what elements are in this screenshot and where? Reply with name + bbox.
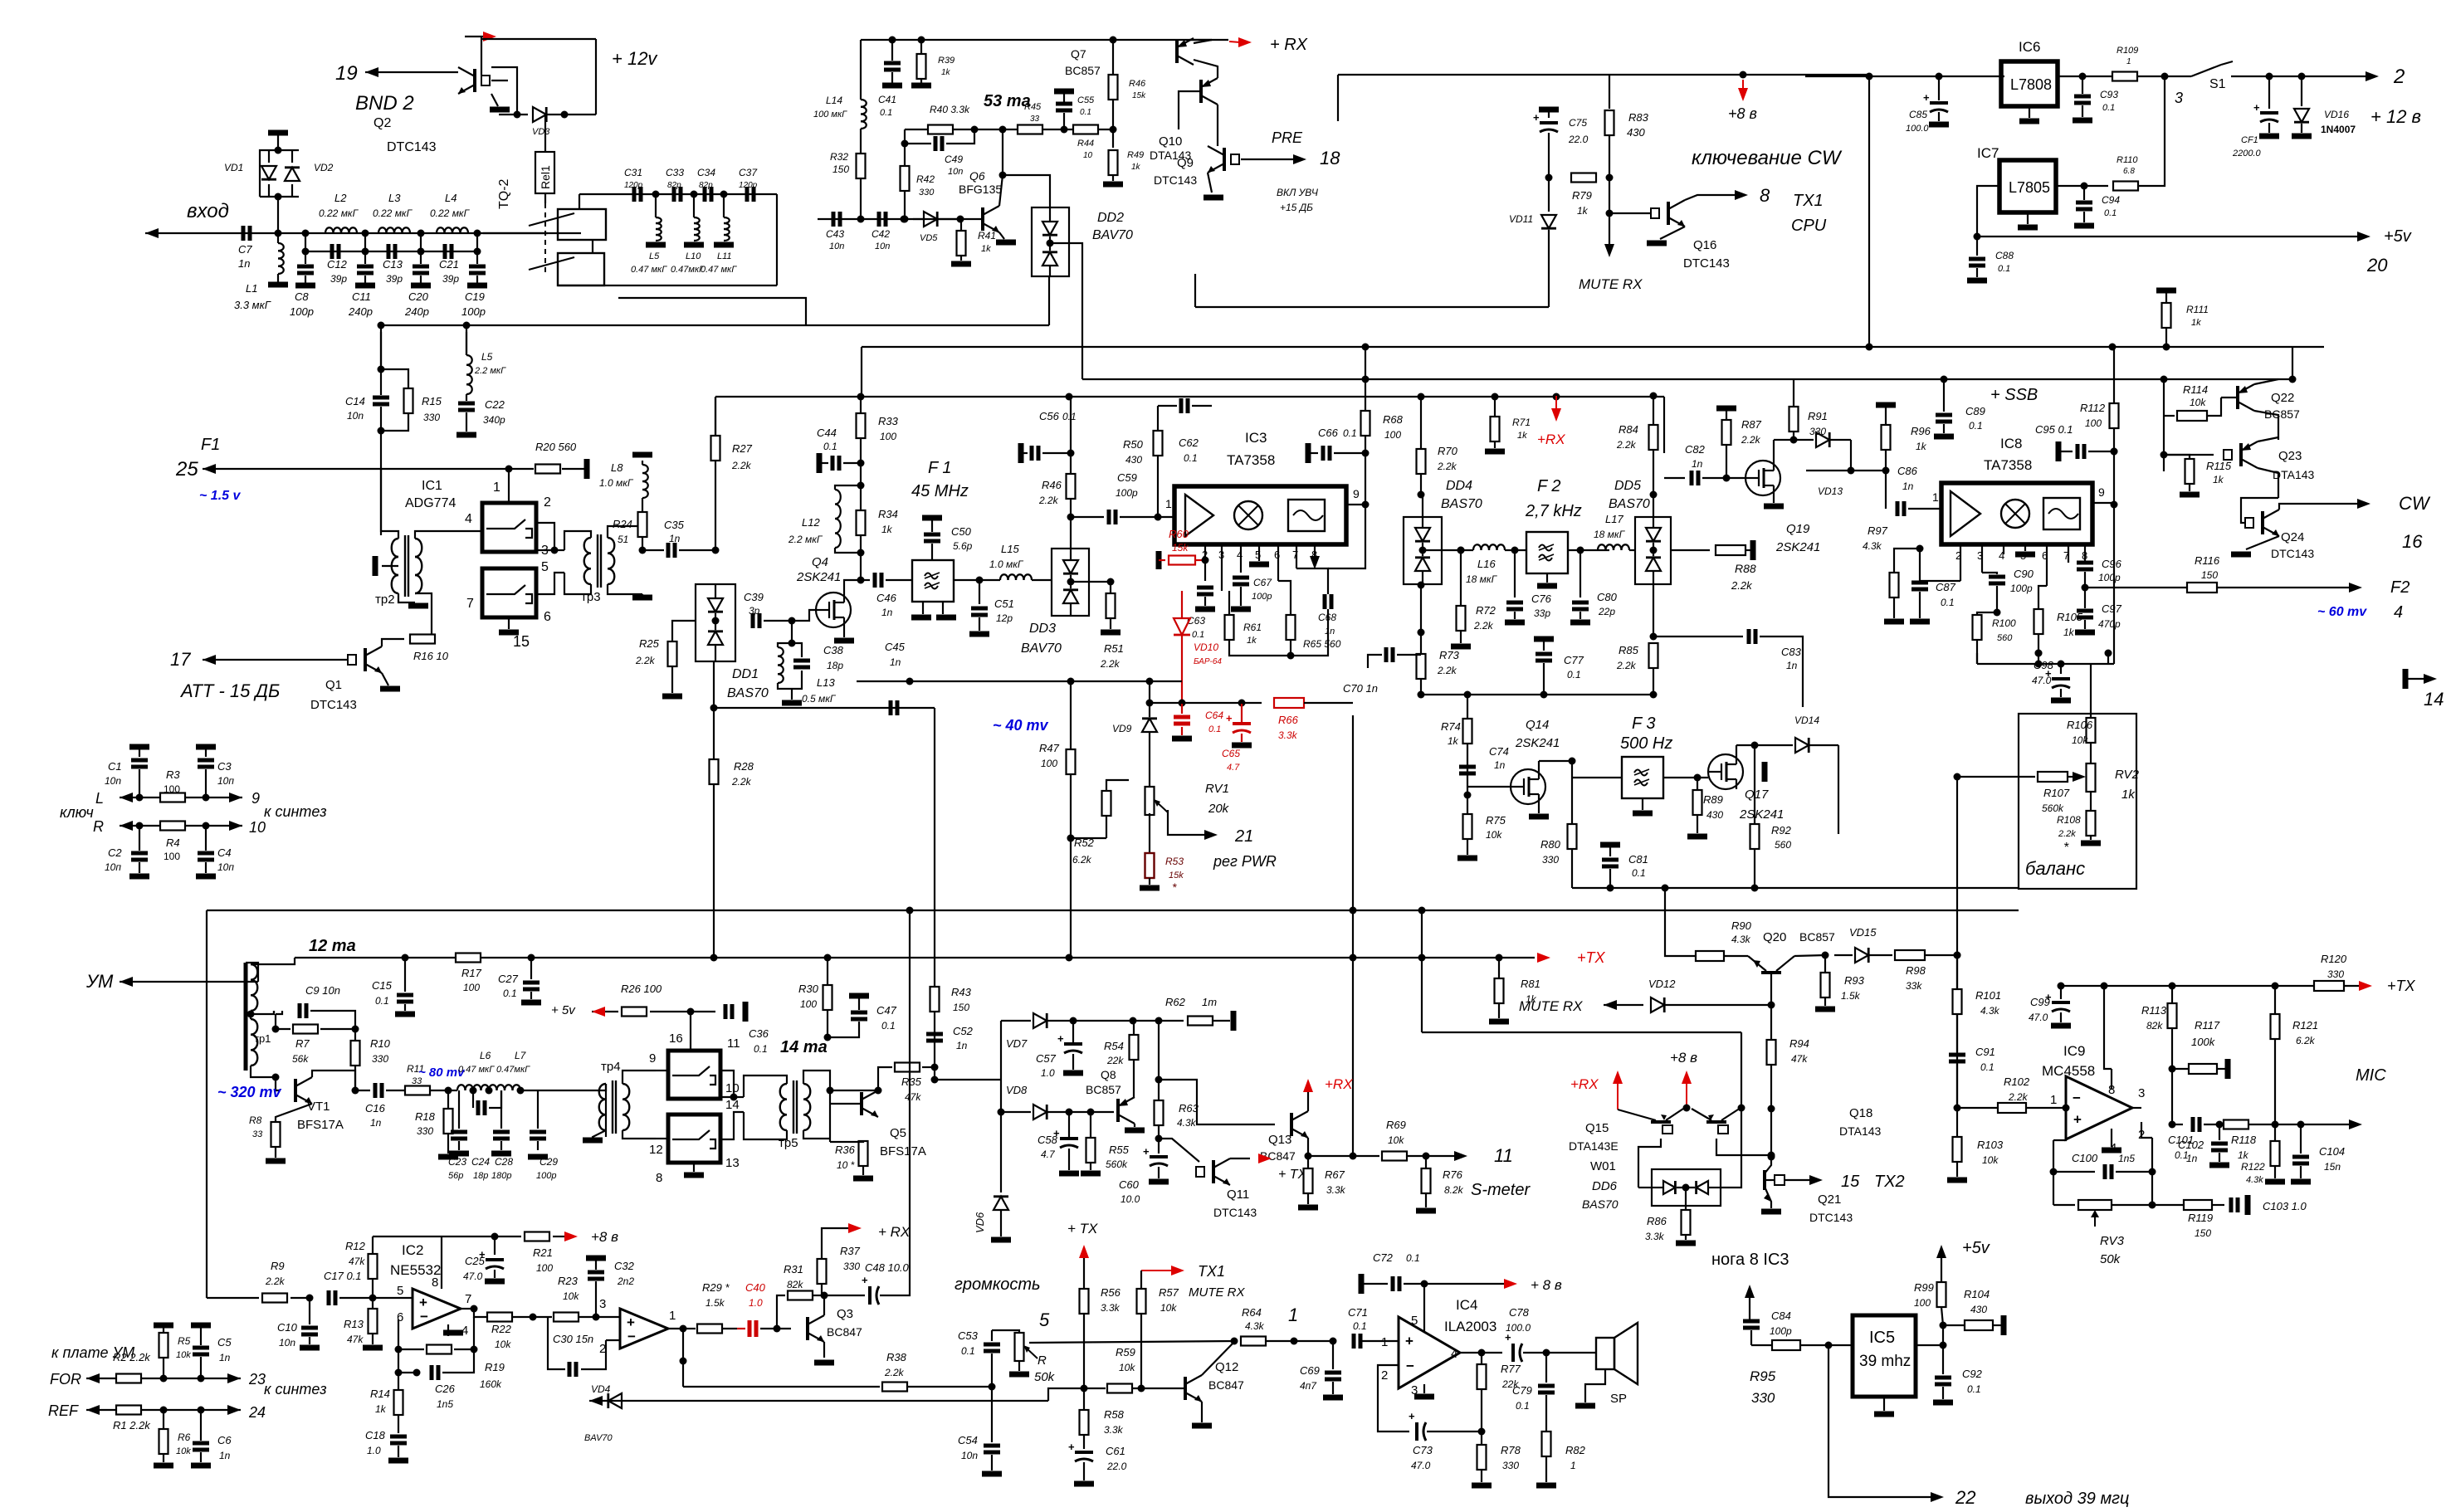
wire box filter band [776, 194, 778, 285]
svg-text:C33: C33 [666, 167, 684, 178]
svg-text:CW: CW [2399, 493, 2431, 514]
svg-text:VD7: VD7 [1006, 1037, 1028, 1050]
svg-text:10k: 10k [176, 1446, 191, 1456]
svg-text:R83: R83 [1628, 111, 1649, 124]
node +8 в [1738, 88, 1748, 101]
svg-text:+RX: +RX [1325, 1076, 1353, 1092]
svg-text:24: 24 [248, 1404, 266, 1421]
svg-text:10k: 10k [1982, 1154, 1999, 1166]
svg-text:R95: R95 [1750, 1368, 1776, 1384]
resistor R63 [1158, 1021, 1160, 1100]
svg-text:100: 100 [1384, 429, 1401, 441]
transformer тр5 [780, 1084, 787, 1100]
resistor R4 [160, 822, 185, 831]
svg-text:4.3k: 4.3k [1980, 1005, 2000, 1017]
wire MUTE collector line [1713, 1032, 1741, 1033]
capacitor C38 [793, 659, 810, 663]
svg-text:C72: C72 [1373, 1251, 1394, 1264]
svg-text:13: 13 [725, 1156, 740, 1170]
svg-text:R41: R41 [978, 230, 996, 241]
wire vert from C14 up [380, 332, 382, 369]
svg-text:Q2: Q2 [374, 116, 391, 130]
capacitor C28 [500, 1090, 502, 1129]
svg-text:5: 5 [1255, 549, 1261, 561]
wire DD6 leads [1638, 1187, 1652, 1188]
svg-text:R5: R5 [178, 1335, 191, 1347]
svg-text:+5v: +5v [2384, 227, 2412, 246]
svg-text:C21: C21 [439, 258, 459, 271]
resistor R6 [163, 1410, 164, 1429]
node +RX red H [1555, 396, 1557, 408]
svg-text:DD1: DD1 [732, 667, 759, 681]
svg-text:2: 2 [1381, 1368, 1388, 1383]
svg-text:10п: 10п [217, 861, 234, 873]
svg-text:10n: 10n [829, 241, 844, 251]
ground тр3 R24 [642, 550, 643, 581]
speaker SP [1546, 1352, 1596, 1353]
wire DD3 node [1071, 581, 1111, 583]
svg-text:10: 10 [249, 819, 266, 836]
svg-text:R57: R57 [1159, 1286, 1179, 1299]
resistor R41 [960, 219, 962, 231]
svg-text:+ RX: + RX [878, 1224, 911, 1240]
svg-text:R44: R44 [1077, 139, 1094, 149]
svg-text:IC4: IC4 [1456, 1297, 1477, 1313]
svg-text:BAS70: BAS70 [1582, 1197, 1619, 1211]
svg-text:L14: L14 [826, 95, 842, 106]
capacitor C79 [1545, 1353, 1547, 1383]
svg-text:50k: 50k [2100, 1252, 2121, 1266]
svg-text:C28: C28 [495, 1156, 513, 1168]
svg-text:2.2k: 2.2k [884, 1367, 905, 1378]
svg-text:R90: R90 [1731, 919, 1752, 932]
wire R98 junction down [1954, 952, 1961, 959]
inductor L3 [378, 227, 387, 233]
svg-text:Q19: Q19 [1786, 522, 1810, 536]
node TX1 MUTE RX right [1141, 1270, 1171, 1271]
svg-text:8: 8 [432, 1275, 438, 1290]
wire F1 line 25 [203, 468, 509, 470]
resistor R87 [1716, 406, 1736, 412]
capacitor C60 [1150, 1155, 1168, 1158]
svg-text:1.0 мкГ: 1.0 мкГ [599, 477, 634, 489]
svg-text:DTC143: DTC143 [1154, 173, 1197, 187]
resistor R2 [116, 1374, 141, 1383]
inductor L8 [642, 463, 643, 471]
resistor R43 [934, 708, 935, 987]
svg-text:0.1: 0.1 [1343, 427, 1357, 439]
svg-text:430: 430 [1125, 454, 1142, 466]
capacitor C62 [1158, 405, 1172, 407]
svg-text:39 mhz: 39 mhz [1859, 1353, 1911, 1370]
capacitor C89 [1943, 379, 1945, 412]
wire rail +8 [442, 1236, 495, 1237]
capacitor C41 [884, 61, 901, 66]
svg-text:BND 2: BND 2 [355, 92, 414, 115]
svg-text:51: 51 [618, 534, 628, 545]
wire Q13 base from R63 [1159, 1080, 1275, 1124]
capacitor C91 [1949, 1053, 1965, 1057]
svg-text:330: 330 [2327, 968, 2344, 980]
transistor Q21 DTC143 [1763, 1170, 1766, 1190]
svg-text:TA7358: TA7358 [1984, 457, 2032, 473]
svg-text:2SK241: 2SK241 [796, 570, 841, 584]
svg-text:R45: R45 [1024, 102, 1042, 112]
svg-text:S-meter: S-meter [1471, 1181, 1531, 1199]
svg-text:R: R [1038, 1353, 1047, 1368]
resistor R58 [1080, 1410, 1089, 1435]
svg-text:1: 1 [1932, 490, 1939, 504]
svg-text:9: 9 [251, 790, 260, 807]
wire top rail G [862, 346, 1869, 348]
wire Q11 base from R63 [1159, 1139, 1199, 1162]
capacitor C68 [1323, 594, 1327, 609]
node MUTE RX arrow [1609, 178, 1610, 245]
svg-text:C12: C12 [327, 258, 348, 271]
svg-text:100: 100 [463, 982, 480, 993]
svg-text:R46: R46 [1129, 79, 1146, 89]
capacitor C83 [1653, 636, 1743, 637]
wire vertical 2358 [1956, 777, 1958, 1108]
svg-text:VD16: VD16 [2324, 109, 2349, 120]
svg-text:IC1: IC1 [422, 479, 442, 493]
svg-text:Q15: Q15 [1585, 1121, 1609, 1135]
transistor Q7 BC857 [1175, 40, 1179, 63]
svg-text:150: 150 [832, 163, 849, 175]
svg-text:R108: R108 [2057, 814, 2081, 826]
svg-text:R56: R56 [1101, 1286, 1121, 1299]
svg-text:330: 330 [1542, 854, 1559, 866]
svg-text:+: + [1143, 1145, 1150, 1158]
svg-text:10n: 10n [961, 1450, 978, 1461]
svg-text:3.3k: 3.3k [1278, 729, 1298, 741]
svg-text:R36: R36 [835, 1144, 856, 1156]
svg-text:6.8: 6.8 [2123, 167, 2135, 176]
svg-text:100p: 100p [290, 305, 314, 318]
svg-text:0.1: 0.1 [375, 995, 389, 1007]
svg-text:470p: 470p [2098, 618, 2121, 630]
transistor Q9 DTC143 [1223, 148, 1226, 171]
svg-text:4.3k: 4.3k [1177, 1117, 1197, 1129]
node 11 S-meter [1426, 1155, 1454, 1157]
filter F2 [1526, 532, 1568, 573]
capacitor C59 [1071, 516, 1104, 518]
svg-text:R24: R24 [613, 518, 632, 530]
capacitor C61 [1075, 1451, 1093, 1454]
svg-text:39p: 39p [330, 273, 347, 285]
capacitor C81 [1600, 842, 1620, 848]
svg-text:L: L [95, 790, 104, 807]
capacitor C96 [2084, 554, 2086, 561]
capacitor C39 [722, 620, 747, 622]
svg-text:0.47 мкГ: 0.47 мкГ [631, 265, 667, 275]
svg-text:R34: R34 [878, 508, 898, 520]
resistor R3 [160, 793, 185, 802]
svg-text:C26: C26 [435, 1383, 456, 1395]
svg-text:C31: C31 [624, 167, 642, 178]
inductor L5a [466, 355, 472, 365]
resistor R104 [1943, 1324, 1964, 1326]
svg-text:VD12: VD12 [1648, 978, 1676, 990]
regulator IC7 L7805 [1999, 160, 2056, 212]
capacitor C97 [2077, 609, 2093, 613]
svg-text:C9 10n: C9 10n [305, 984, 340, 997]
potentiometer R 50k громкость [992, 1330, 1019, 1333]
svg-text:L8: L8 [611, 461, 623, 474]
switch box M lower [668, 1114, 720, 1163]
capacitor C90 [1982, 572, 1997, 573]
transistor Q24 DTC143 [2261, 511, 2264, 534]
svg-text:R84: R84 [1619, 423, 1638, 436]
ground IC5 [1883, 1397, 1885, 1411]
svg-text:R100: R100 [1992, 617, 2016, 629]
resistor R13 [372, 1298, 374, 1309]
svg-text:C93: C93 [2100, 89, 2118, 100]
capacitor C67 [1233, 576, 1249, 580]
svg-text:4.3k: 4.3k [1863, 540, 1882, 552]
svg-text:0.22 мкГ: 0.22 мкГ [319, 207, 359, 219]
resistor R50 [1154, 431, 1163, 456]
svg-text:R53: R53 [1165, 856, 1184, 867]
svg-text:R33: R33 [878, 415, 899, 427]
wire rail J2 [1082, 378, 2292, 380]
svg-text:C2: C2 [108, 846, 122, 859]
resistor R88 [1671, 549, 1710, 551]
wire rail y394 [380, 325, 382, 369]
capacitor C66 [1306, 443, 1311, 463]
wire IC1 pin1 [508, 469, 510, 503]
svg-text:100: 100 [880, 431, 896, 442]
inductor L11 filter [723, 194, 725, 217]
svg-text:2SK241: 2SK241 [1775, 540, 1820, 554]
capacitor C82 [1664, 477, 1685, 479]
svg-text:R14: R14 [370, 1388, 390, 1400]
svg-text:RV2: RV2 [2115, 768, 2140, 782]
wire R43 junction [934, 999, 935, 1067]
svg-text:C92: C92 [1962, 1368, 1983, 1380]
op-amp IC2 NE5532 A [413, 1289, 461, 1329]
switch box IC1 lower [482, 568, 536, 617]
op-amp IC3 TA7358 [1174, 486, 1346, 544]
svg-text:R98: R98 [1906, 964, 1926, 977]
svg-text:BAS70: BAS70 [1609, 497, 1650, 511]
transistor Q10 DTA143 [1199, 80, 1203, 103]
svg-text:MUTE RX: MUTE RX [1189, 1285, 1245, 1300]
svg-text:L12: L12 [802, 516, 820, 529]
svg-text:R115: R115 [2206, 460, 2232, 472]
diode VD14 [1755, 744, 1793, 746]
svg-text:R106: R106 [2067, 719, 2093, 731]
svg-text:Q11: Q11 [1227, 1188, 1249, 1202]
svg-text:0.1: 0.1 [1969, 420, 1983, 432]
svg-text:0.1: 0.1 [1941, 597, 1955, 608]
svg-text:56k: 56k [292, 1053, 309, 1065]
svg-text:C5: C5 [217, 1336, 232, 1349]
svg-text:2SK241: 2SK241 [1515, 736, 1560, 750]
svg-text:DD4: DD4 [1446, 479, 1472, 493]
capacitor C53 [991, 1330, 993, 1341]
svg-text:C70 1n: C70 1n [1343, 682, 1378, 695]
op-amp IC4 ILA2003 [1399, 1317, 1460, 1388]
inductor L10 filter [693, 194, 695, 217]
wire relay to lineP [618, 298, 806, 325]
svg-text:C61: C61 [1106, 1445, 1125, 1457]
capacitor CF1 [2266, 73, 2273, 80]
resistor R74 [1467, 695, 1468, 719]
svg-text:2.2k: 2.2k [1616, 660, 1637, 671]
svg-text:2: 2 [2393, 66, 2405, 88]
svg-text:0.1: 0.1 [823, 441, 837, 452]
wire F2 out line [2085, 587, 2202, 588]
svg-text:DTA143: DTA143 [1839, 1124, 1882, 1138]
svg-text:C81: C81 [1628, 853, 1648, 866]
svg-text:0.1: 0.1 [881, 1020, 896, 1032]
wire rail H2 [1418, 393, 1425, 401]
capacitor C78 [1482, 1352, 1502, 1353]
svg-text:C86: C86 [1897, 465, 1918, 477]
svg-text:R47: R47 [1039, 742, 1060, 754]
resistor R89 [1697, 778, 1698, 790]
svg-text:C13: C13 [383, 258, 403, 271]
diode VD15 [1834, 954, 1853, 956]
capacitor C76 [1514, 550, 1516, 597]
svg-text:240p: 240p [404, 305, 429, 318]
svg-text:4: 4 [2394, 603, 2403, 622]
capacitor C100 [2053, 1171, 2095, 1173]
svg-text:C65: C65 [1222, 748, 1240, 759]
svg-text:0.47мкГ: 0.47мкГ [671, 265, 705, 275]
svg-text:33p: 33p [1534, 607, 1550, 619]
resistor R16 [410, 635, 435, 644]
ground IC1 [508, 617, 510, 629]
svg-text:АТТ - 15 ДБ: АТТ - 15 ДБ [179, 680, 280, 701]
svg-text:15k: 15k [1132, 91, 1146, 100]
resistor R25 [668, 641, 677, 666]
svg-text:BC857: BC857 [1086, 1083, 1121, 1096]
resistor R46 [1112, 40, 1114, 75]
svg-text:330: 330 [372, 1053, 388, 1065]
resistor R70 [1420, 396, 1422, 448]
svg-text:Q7: Q7 [1071, 47, 1086, 61]
svg-text:R35: R35 [901, 1075, 922, 1088]
svg-text:9: 9 [649, 1051, 656, 1066]
resistor R106b [2107, 664, 2109, 714]
svg-text:100p: 100p [2010, 583, 2033, 594]
resistor R102 [1954, 1105, 1961, 1112]
svg-text:R86: R86 [1647, 1215, 1667, 1227]
svg-text:Q9: Q9 [1177, 156, 1194, 170]
svg-text:R38: R38 [886, 1351, 907, 1363]
relay Rel1 [535, 152, 554, 193]
svg-text:L1: L1 [246, 282, 257, 295]
svg-text:100p: 100p [461, 305, 486, 318]
svg-text:1: 1 [1165, 497, 1172, 510]
capacitor C7 [242, 226, 246, 241]
svg-text:+: + [2073, 1112, 2082, 1128]
capacitor C63 [1197, 586, 1213, 590]
svg-text:R114: R114 [2183, 383, 2208, 396]
wire Q5 base R35 loop [830, 1090, 878, 1091]
red resistor R66 [1150, 702, 1262, 704]
svg-text:1: 1 [2126, 57, 2131, 66]
svg-text:12p: 12p [996, 612, 1013, 624]
resistor R96 [1876, 402, 1896, 408]
wire L13 tank [791, 621, 793, 643]
transistor Q19 2SK241 [1745, 461, 1780, 495]
capacitor C30 [581, 1368, 596, 1370]
svg-text:R81: R81 [1521, 978, 1540, 990]
resistor R30 [827, 958, 828, 985]
svg-text:3.3k: 3.3k [1101, 1302, 1121, 1314]
resistor R7 [276, 1028, 291, 1030]
wire top rail B [861, 39, 1212, 41]
svg-text:0.1: 0.1 [1980, 1061, 1994, 1073]
svg-text:5: 5 [1039, 1310, 1050, 1330]
svg-text:R69: R69 [1386, 1119, 1406, 1131]
resistor R94 [1770, 1005, 1772, 1040]
svg-text:+: + [1068, 1441, 1075, 1453]
svg-text:10k: 10k [1388, 1134, 1404, 1146]
capacitor C52 [934, 1032, 935, 1067]
svg-text:~ 60 mv: ~ 60 mv [2317, 605, 2367, 619]
svg-text:+15 ДБ: +15 ДБ [1280, 202, 1313, 213]
resistor R27 [711, 436, 720, 461]
wire Q21 junction [1770, 1109, 1772, 1157]
svg-text:R52: R52 [1074, 836, 1095, 849]
wire 12v rail top [1805, 76, 2004, 77]
transistor Q15 dual B [1706, 1120, 1726, 1124]
svg-text:R102: R102 [2004, 1075, 2030, 1088]
svg-text:C99: C99 [2030, 996, 2050, 1008]
resistor R26 [592, 1011, 618, 1012]
svg-text:430: 430 [1970, 1304, 1987, 1315]
svg-text:DD3: DD3 [1029, 622, 1056, 636]
transistor Q1 DTC143 [364, 648, 367, 671]
svg-text:+ 12 в: + 12 в [2370, 106, 2421, 127]
wire R19 loop [398, 1319, 424, 1349]
svg-text:MIC: MIC [2356, 1066, 2386, 1085]
capacitor C69 [1332, 1341, 1334, 1369]
transistor Q23 DTA143 [2239, 443, 2243, 466]
wire vertical 1713 [1421, 910, 1423, 1032]
svg-text:R15: R15 [422, 395, 442, 407]
svg-text:1n5: 1n5 [2118, 1153, 2135, 1164]
wire Q12 collector [1202, 1342, 1234, 1375]
resistor R15 [381, 369, 408, 388]
wire громкость feed [1029, 1341, 1234, 1343]
node +5v R99 [1936, 1245, 1946, 1258]
resistor R80 [1571, 761, 1573, 824]
diode VD16 1N4007 [2298, 73, 2306, 80]
resistor R57 [1140, 1271, 1142, 1289]
capacitor C47 [849, 993, 869, 999]
diode VD1 [260, 150, 299, 197]
IC8 pin 9 [2092, 502, 2114, 504]
svg-text:0.1: 0.1 [880, 108, 892, 118]
resistor R105 [2038, 586, 2047, 609]
svg-text:R94: R94 [1789, 1037, 1809, 1050]
svg-text:R92: R92 [1771, 824, 1792, 836]
svg-text:ключевание CW: ключевание CW [1692, 147, 1843, 169]
svg-text:47k: 47k [349, 1256, 365, 1267]
svg-text:1n: 1n [669, 533, 681, 544]
node 14 terminal [2403, 669, 2409, 689]
svg-text:R20 560: R20 560 [535, 441, 577, 453]
svg-text:1: 1 [493, 480, 500, 495]
op-amp IC8 TA7358 box [1941, 483, 2092, 544]
resistor R91 [1793, 379, 1794, 407]
svg-text:2.2k: 2.2k [635, 655, 656, 666]
